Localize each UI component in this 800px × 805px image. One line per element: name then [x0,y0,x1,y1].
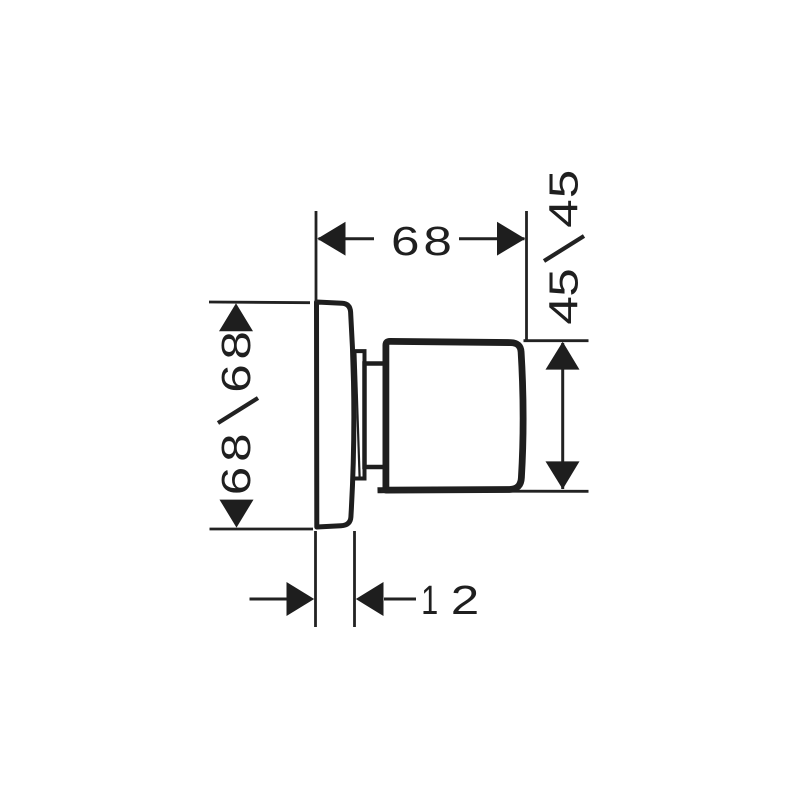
dim 68/68 left: top extension line [209,301,310,305]
dim 68 top: left dimension line [319,237,375,240]
dim 45/45 right: slash [544,236,584,261]
svg-text:2: 2 [451,577,480,623]
dim 45/45 right: dimension line [561,343,564,489]
dim 68/68 left: slash [218,398,258,423]
handle skirt ledge [378,487,387,493]
sleeve (escutcheon collar) [355,351,365,478]
handle (knob, side view) [386,341,523,490]
stop ring [365,364,386,468]
svg-text:5: 5 [541,170,587,199]
dim 68/68 left: bottom arrow [220,500,254,528]
svg-text:6: 6 [213,467,259,496]
dim 12 bottom: right arrow [356,582,384,616]
dim 12 bottom: left dimension line [250,598,288,601]
dim 68/68 left: bottom extension line [210,528,314,531]
dim 45/45 right: bottom extension line [381,490,589,493]
dim 12 bottom: right extension line [353,531,356,627]
dim 68 top: left extension line [315,211,318,302]
dim 68/68 left: top arrow [219,303,253,331]
svg-text:5: 5 [541,268,587,297]
svg-text:6: 6 [213,364,259,393]
dim 12 bottom: right dimension line [384,598,416,601]
svg-text:4: 4 [541,199,587,228]
svg-text:4: 4 [541,296,587,325]
dim 45/45 right: down arrow [546,461,580,489]
svg-text:8: 8 [213,331,259,360]
dim 68 top: right arrow [497,222,525,256]
sleeve (escutcheon collar) thin left edge [355,352,359,477]
escutcheon plate (side view) [317,302,354,527]
dim 45/45 right: top extension line [524,339,589,342]
svg-text:6: 6 [391,218,420,264]
dim 45/45 right: up arrow [546,342,580,370]
svg-text:8: 8 [213,433,259,462]
dim 12 bottom: left extension line [314,531,317,627]
svg-text:1: 1 [421,577,438,623]
dim 68 top: left arrow [317,222,345,256]
svg-text:8: 8 [423,218,452,264]
dim 68 top: right dimension line [459,237,525,240]
dim 68 top: right extension line [525,211,528,340]
dim 12 bottom: left arrow [287,582,315,616]
